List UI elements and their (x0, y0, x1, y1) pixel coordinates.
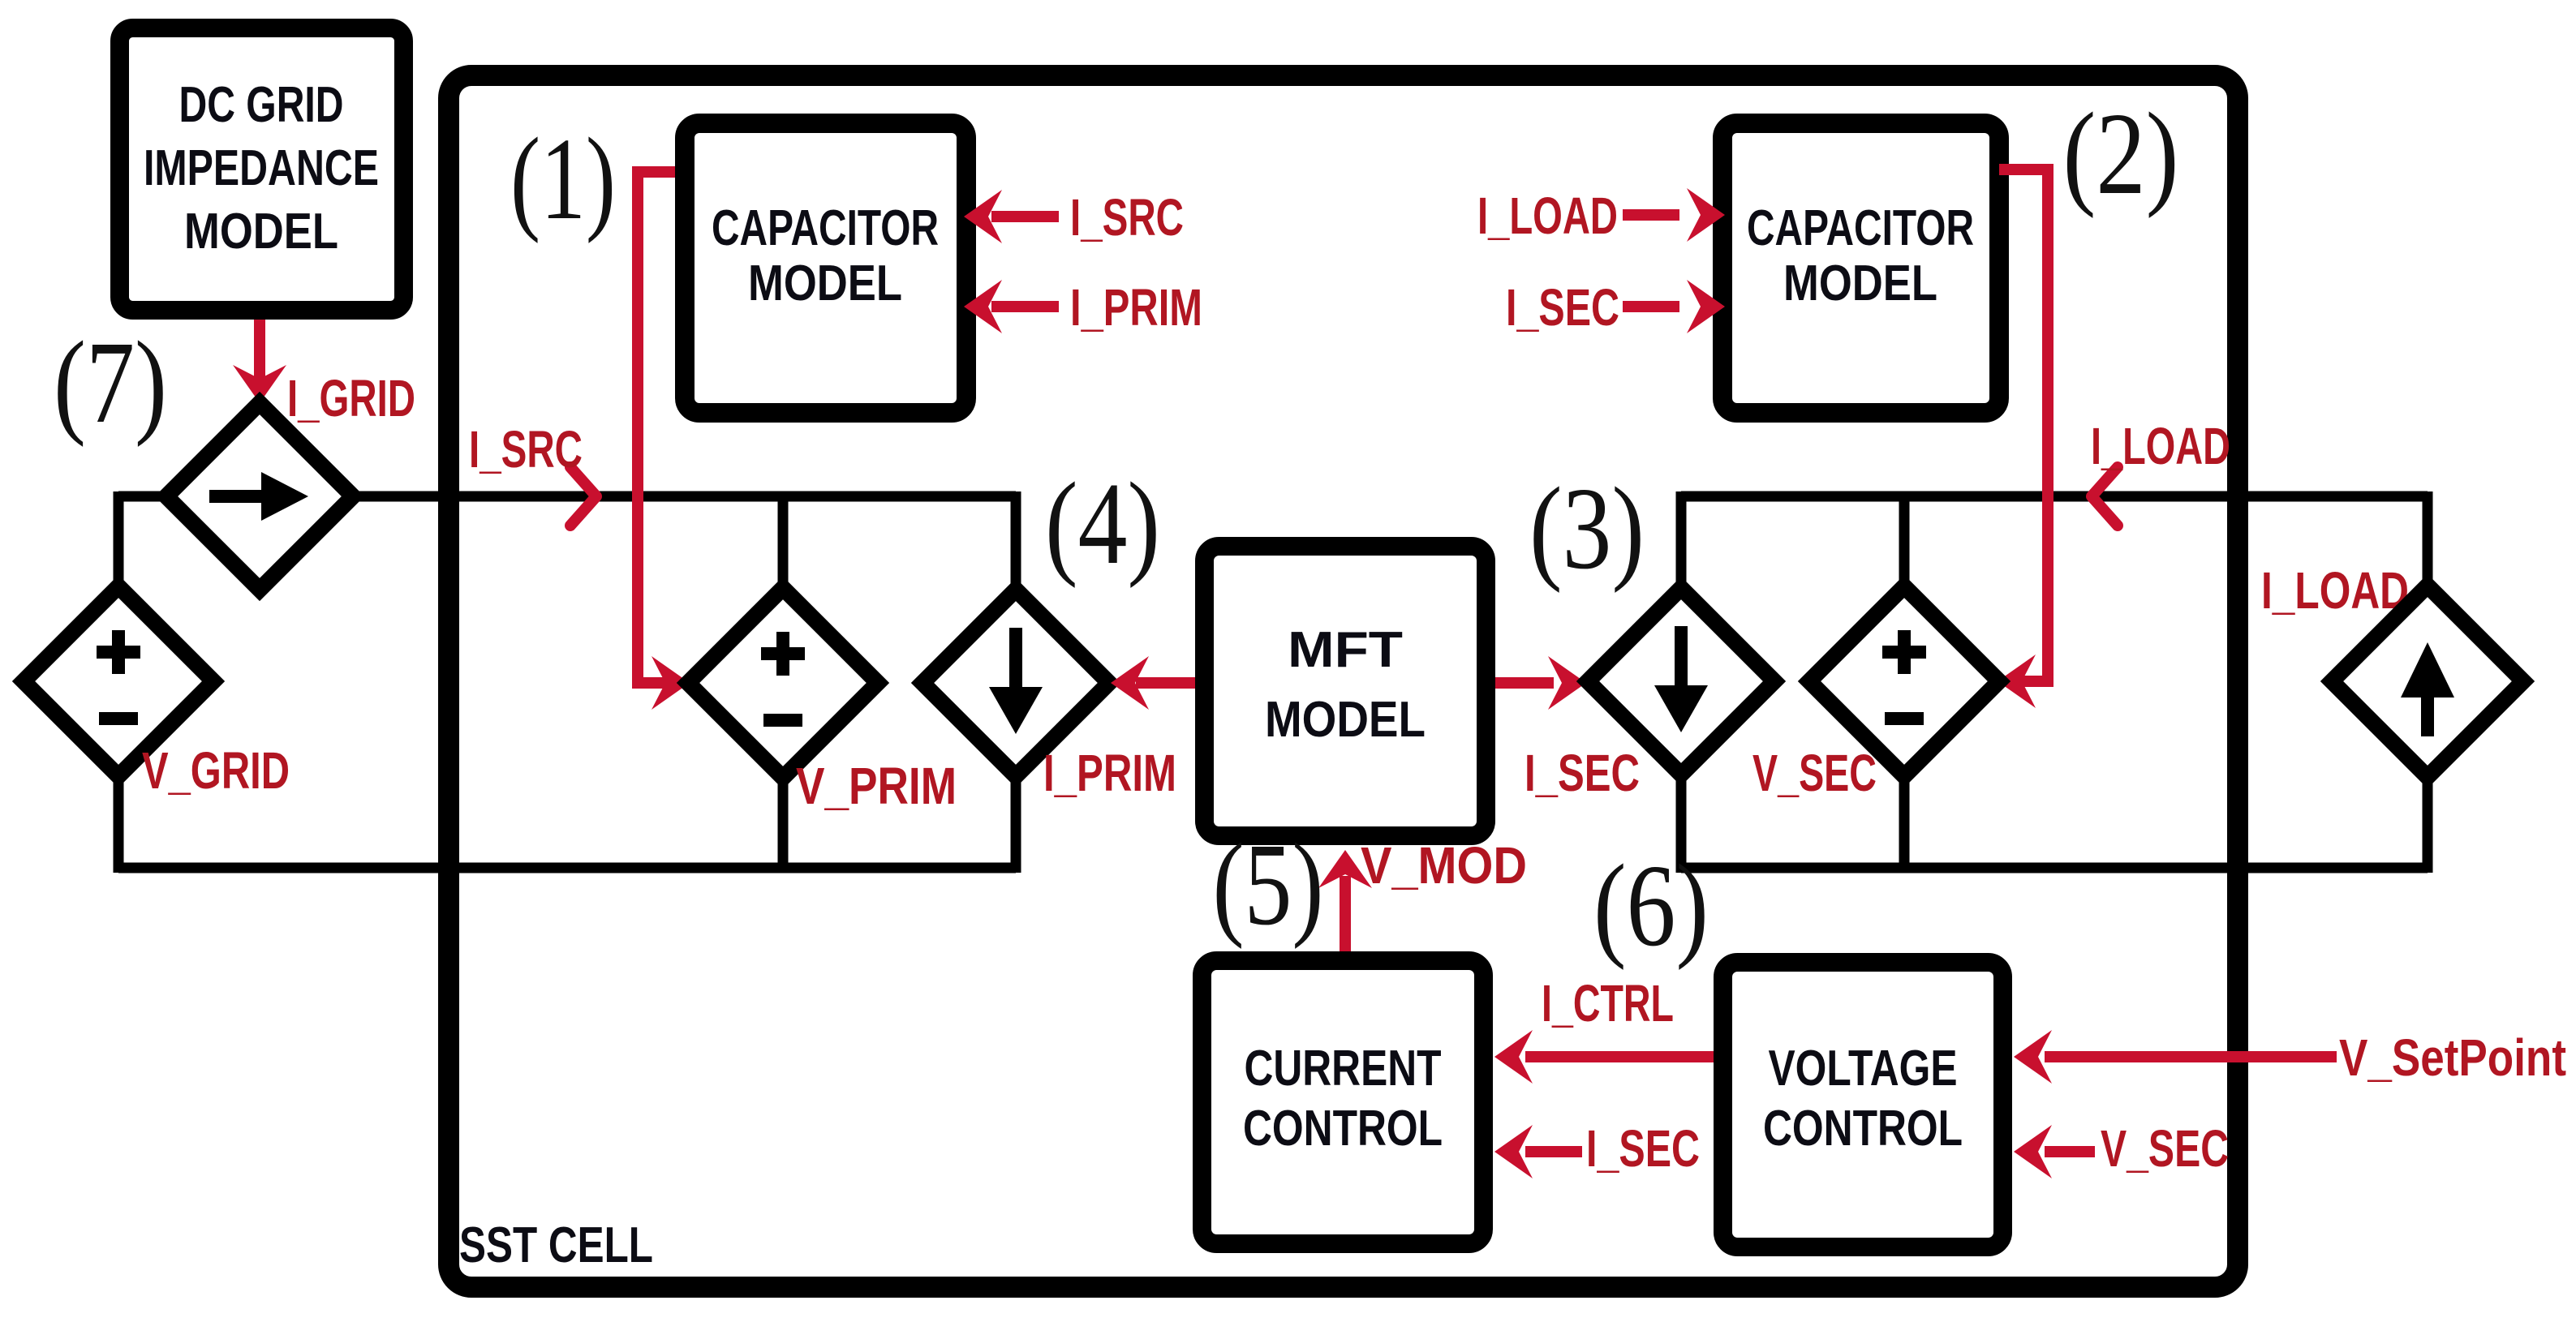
wire: left rail left connector through V_GRID (114, 491, 124, 873)
wire: V_SEC stub (1899, 496, 1910, 868)
svg-text:(3): (3) (1529, 464, 1645, 594)
red chevron I_SRC on left rail (570, 467, 596, 526)
number (7) (54, 318, 167, 448)
block: DC GRID IMPEDANCE MODEL (120, 28, 404, 311)
wire: V_MOD red arrow from current control to MFT (1318, 850, 1372, 951)
red chevron I_LOAD on right rail (2092, 467, 2118, 526)
svg-text:CAPACITOR: CAPACITOR (1747, 200, 1974, 256)
block: MFT MODEL (1205, 547, 1486, 836)
label I_SEC (mid) (1525, 744, 1640, 802)
dependent voltage source V_SEC (diamond with plus minus) (1809, 586, 1999, 776)
dependent current source I_SEC (diamond with down arrow) (1588, 588, 1774, 775)
label I_LOAD (far right source) (2261, 561, 2409, 620)
svg-text:VOLTAGE: VOLTAGE (1769, 1041, 1958, 1097)
svg-text:I_LOAD: I_LOAD (2261, 561, 2409, 620)
number (4) (1045, 459, 1160, 589)
dependent current source I_GRID (diamond with right arrow) (166, 403, 353, 590)
svg-text:V_SEC: V_SEC (1752, 744, 1877, 802)
svg-text:I_LOAD: I_LOAD (1477, 187, 1618, 245)
wire: red arrow MFT to I_PRIM (1111, 656, 1195, 710)
label I_SEC (capacitor input) (1506, 278, 1619, 337)
wire: I_PRIM stub (1011, 491, 1021, 873)
svg-text:I_SRC: I_SRC (469, 420, 583, 479)
label I_LOAD on rail (2091, 417, 2230, 475)
wire: left top rail (118, 491, 1016, 502)
wire: I_LOAD arrow into secondary capacitor model (1623, 188, 1725, 242)
wire: I_SEC arrow into secondary capacitor model (1623, 280, 1725, 333)
wire: right bottom rail (1681, 863, 2428, 873)
svg-text:V_SEC: V_SEC (2101, 1119, 2229, 1178)
svg-text:MFT: MFT (1288, 622, 1403, 678)
label V_GRID (142, 741, 290, 800)
svg-text:V_SetPoint: V_SetPoint (2339, 1028, 2566, 1087)
label I_LOAD (capacitor input) (1477, 187, 1618, 245)
svg-text:V_PRIM: V_PRIM (796, 757, 957, 815)
svg-text:CAPACITOR: CAPACITOR (712, 200, 939, 256)
number (1) (510, 114, 616, 244)
svg-text:MODEL: MODEL (184, 204, 338, 260)
svg-text:CURRENT: CURRENT (1245, 1041, 1442, 1097)
SST CELL label (459, 1217, 653, 1273)
svg-text:V_MOD: V_MOD (1361, 836, 1527, 895)
svg-text:I_GRID: I_GRID (287, 369, 415, 427)
label V_SEC (control input) (2101, 1119, 2229, 1178)
svg-text:I_CTRL: I_CTRL (1542, 974, 1674, 1032)
wire: right top rail (1681, 491, 2428, 502)
block: CURRENT CONTROL (1202, 961, 1484, 1244)
wire: I_SEC red arrow into current control (1494, 1125, 1582, 1178)
label V_PRIM (796, 757, 957, 815)
svg-text:IMPEDANCE: IMPEDANCE (144, 140, 379, 196)
wire: right rail right connector through I_LOAD source (2423, 491, 2433, 873)
svg-text:(7): (7) (54, 318, 167, 448)
svg-text:(4): (4) (1045, 459, 1160, 589)
svg-text:MODEL: MODEL (1783, 255, 1937, 311)
label V_SEC (mid) (1752, 744, 1877, 802)
svg-text:I_SEC: I_SEC (1586, 1119, 1700, 1178)
wire: V_SetPoint red arrow into voltage control (2014, 1030, 2337, 1084)
svg-text:I_PRIM: I_PRIM (1043, 744, 1176, 802)
dependent voltage source V_PRIM (diamond with plus minus) (688, 588, 878, 778)
wire: I_CTRL red arrow voltage control to current control (1494, 1030, 1714, 1084)
svg-text:DC GRID: DC GRID (179, 77, 344, 133)
wire: I_PRIM arrow into primary capacitor model (964, 280, 1059, 333)
dependent voltage source V_GRID (diamond with plus minus) (24, 586, 213, 776)
wire: V_PRIM stub (778, 496, 789, 868)
label I_SEC (control input) (1586, 1119, 1700, 1178)
svg-text:I_PRIM: I_PRIM (1070, 278, 1202, 337)
svg-text:CONTROL: CONTROL (1763, 1101, 1963, 1157)
SST CELL boundary box (449, 75, 2238, 1287)
label I_PRIM (1043, 744, 1176, 802)
svg-text:MODEL: MODEL (748, 255, 902, 311)
svg-text:I_SEC: I_SEC (1525, 744, 1640, 802)
wire: left bottom rail (118, 863, 1016, 873)
svg-text:(1): (1) (510, 114, 616, 244)
svg-text:(2): (2) (2063, 89, 2179, 219)
svg-text:I_SEC: I_SEC (1506, 278, 1619, 337)
label V_SetPoint (2339, 1028, 2566, 1087)
wire: V_SEC red arrow into voltage control (2014, 1125, 2095, 1178)
svg-text:(6): (6) (1593, 841, 1709, 971)
svg-text:(5): (5) (1213, 820, 1324, 950)
wire: I_SEC stub (1676, 491, 1687, 873)
svg-text:I_LOAD: I_LOAD (2091, 417, 2230, 475)
dependent current source I_LOAD (diamond with up arrow) (2332, 586, 2523, 777)
wire: I_GRID red wire from DC GRID model down (233, 320, 286, 403)
dependent current source I_PRIM (diamond with down arrow) (922, 590, 1109, 776)
label I_SRC on rail (469, 420, 583, 479)
wire: red arrow MFT to I_SEC (1495, 656, 1586, 710)
svg-text:CONTROL: CONTROL (1243, 1101, 1443, 1157)
number (2) (2063, 89, 2179, 219)
number (6) (1593, 841, 1709, 971)
block: CAPACITOR MODEL (secondary) (1722, 123, 1999, 413)
number (5) (1213, 820, 1324, 950)
svg-text:SST CELL: SST CELL (459, 1217, 653, 1273)
number (3) (1529, 464, 1645, 594)
svg-text:MODEL: MODEL (1265, 692, 1426, 748)
block: CAPACITOR MODEL (primary) (685, 123, 966, 413)
label V_MOD (1361, 836, 1527, 895)
wire: I_SRC arrow into primary capacitor model (964, 190, 1059, 243)
label I_GRID (287, 369, 415, 427)
wire: red node (1) wire from capacitor model to V_PRIM (638, 172, 690, 710)
label I_PRIM (capacitor input) (1070, 278, 1202, 337)
label I_CTRL (1542, 974, 1674, 1032)
label I_SRC (capacitor input) (1070, 188, 1184, 247)
svg-text:I_SRC: I_SRC (1070, 188, 1184, 247)
block: VOLTAGE CONTROL (1723, 963, 2003, 1247)
svg-text:V_GRID: V_GRID (142, 741, 290, 800)
wire: red node (2) wire from secondary capacitor to V_SEC (1998, 170, 2048, 708)
